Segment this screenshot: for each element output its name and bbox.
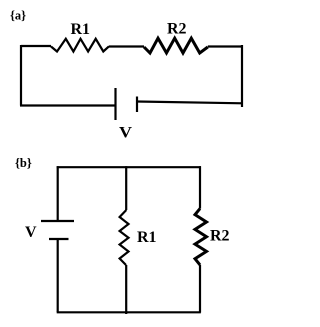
resistor R2 (parallel circuit b) vertical zigzag <box>195 209 207 265</box>
resistor R2 (series circuit a) zigzag <box>144 38 208 53</box>
wire: (b) left vertical upper (to battery) <box>57 166 59 220</box>
wire: (b) right branch upper <box>199 166 201 208</box>
wire: (a) bottom-right horizontal from battery short plate to corner <box>137 102 243 104</box>
svg-text:R2: R2 <box>210 228 230 245</box>
battery V (b): long plate <box>41 220 74 222</box>
resistor R1 (series circuit a) zigzag <box>51 39 109 52</box>
wire: (b) left vertical lower (battery to bottom) <box>57 240 59 312</box>
wire: (a) right vertical <box>241 45 243 107</box>
battery V (b): short plate <box>49 238 69 240</box>
wire: (a) top middle between R1 and R2 <box>109 45 144 47</box>
svg-text:{b}: {b} <box>15 156 32 170</box>
battery V (a): short plate <box>136 97 138 113</box>
svg-text:V: V <box>25 224 37 241</box>
svg-text:V: V <box>119 125 132 142</box>
wire: (b) top horizontal <box>57 166 201 168</box>
wire: (b) middle branch lower <box>125 265 127 314</box>
battery V (a): long plate <box>114 88 116 120</box>
resistor R1 (parallel circuit b) vertical zigzag <box>120 210 129 265</box>
wire: (b) middle branch upper <box>125 166 127 210</box>
svg-text:{a}: {a} <box>10 8 26 22</box>
svg-text:R2: R2 <box>167 21 187 38</box>
svg-text:R1: R1 <box>137 229 157 246</box>
wire: (b) bottom horizontal <box>57 311 201 313</box>
wire: (b) right branch lower <box>199 265 201 313</box>
wire: (a) top-left horizontal from corner to R1 <box>21 45 51 47</box>
wire: (a) left vertical <box>20 45 22 106</box>
wire: (a) top-right horizontal from R2 to corner <box>208 45 242 47</box>
wire: (a) bottom-left horizontal to battery long plate <box>20 104 116 106</box>
svg-text:R1: R1 <box>71 21 91 38</box>
